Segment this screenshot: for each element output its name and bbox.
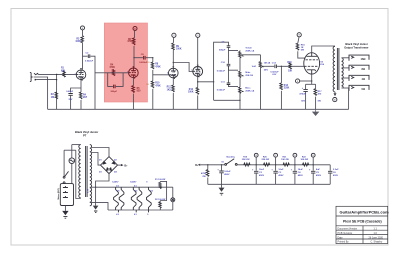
- resistor R14: [280, 66, 282, 83]
- svg-text:450V: 450V: [316, 174, 322, 177]
- svg-text:63V: 63V: [272, 74, 276, 76]
- svg-text:PCB Versions: PCB Versions: [338, 232, 354, 235]
- PT tap stubs: [90, 186, 96, 188]
- wire: [82, 30, 84, 36]
- svg-text:10K-2W: 10K-2W: [301, 159, 309, 161]
- wire: [228, 50, 230, 63]
- cap C2 filter: [255, 165, 257, 171]
- earth ground: [64, 206, 66, 211]
- svg-text:GuitarAmplifierPCBs.com: GuitarAmplifierPCBs.com: [340, 210, 390, 215]
- svg-text:Bass: Bass: [245, 88, 251, 90]
- svg-text:470K: 470K: [127, 40, 133, 43]
- cap C5 filter: [312, 165, 314, 171]
- cap C4 filter: [294, 165, 296, 171]
- svg-text:V1: V1: [80, 73, 82, 75]
- triode V2: [129, 68, 139, 78]
- svg-text:V3A: V3A: [196, 69, 200, 72]
- svg-text:R15: R15: [287, 62, 292, 64]
- svg-text:12AX7: 12AX7: [170, 74, 176, 77]
- wire plate V1: [82, 43, 84, 70]
- wire primary bottom to node A: [334, 92, 336, 94]
- svg-text:R12: R12: [189, 89, 194, 91]
- resistor R11 cathode: [172, 78, 174, 85]
- svg-text:1W: 1W: [146, 84, 149, 86]
- svg-text:450V: 450V: [278, 174, 284, 177]
- svg-text:0Ω: 0Ω: [362, 87, 366, 91]
- svg-text:V2: V2: [132, 71, 134, 73]
- svg-text:22K-2W: 22K-2W: [262, 159, 270, 161]
- svg-text:100-2W: 100-2W: [158, 199, 165, 201]
- resistor R12: [196, 87, 199, 94]
- node C2: [196, 33, 200, 37]
- resistor R10: [152, 75, 154, 81]
- resistor R8: [152, 58, 154, 62]
- svg-text:100K: 100K: [176, 48, 182, 50]
- svg-text:100uF: 100uF: [224, 171, 231, 173]
- wire: [133, 30, 136, 38]
- svg-text:Vol1: Vol1: [252, 66, 257, 68]
- svg-text:10K-2W: 10K-2W: [281, 159, 289, 161]
- switch SW1: [63, 176, 65, 178]
- heater V1: [114, 187, 124, 212]
- series resistor R19: [244, 163, 250, 166]
- svg-text:100K: 100K: [75, 41, 81, 43]
- capacitor C2: [83, 55, 88, 57]
- pot Treble: [239, 50, 241, 51]
- heater V3: [147, 187, 152, 212]
- node C: [172, 33, 176, 37]
- node C chain: [274, 153, 278, 157]
- svg-text:20%: 20%: [264, 70, 268, 72]
- wire direct coupling: [173, 63, 193, 72]
- mains wiring: [64, 149, 76, 151]
- triode V3: [169, 68, 179, 78]
- humdinger R1: [160, 181, 166, 200]
- standby switch: [225, 164, 227, 166]
- bridge to ground: [96, 174, 109, 206]
- resistor R2: [56, 92, 58, 109]
- wire: [228, 66, 230, 83]
- svg-text:25K-1B: 25K-1B: [245, 75, 253, 77]
- wire: [172, 50, 174, 68]
- svg-text:0.68uF: 0.68uF: [66, 91, 74, 93]
- svg-text:250K-1A: 250K-1A: [245, 90, 254, 93]
- svg-text:4 5: 4 5: [134, 213, 137, 216]
- wire sleeve: [36, 79, 57, 81]
- svg-text:6.3V: 6.3V: [88, 188, 90, 193]
- bleeder resistor: [207, 164, 208, 165]
- humdinger R2: [159, 201, 161, 202]
- svg-text:500pF: 500pF: [111, 91, 118, 93]
- cathode network: [311, 74, 313, 84]
- jack 8 ohm: [349, 65, 369, 71]
- wire plate: [197, 37, 199, 66]
- svg-text:10K: 10K: [288, 71, 293, 73]
- svg-text:250K-1A: 250K-1A: [245, 50, 254, 53]
- node B: [297, 33, 301, 37]
- svg-text:2: 2: [167, 72, 168, 74]
- svg-text:7: 7: [191, 70, 192, 72]
- pot Vol1: [260, 55, 262, 62]
- cathode network V1: wire: [80, 80, 82, 93]
- resistor R3: [81, 36, 84, 43]
- wire: [277, 65, 304, 67]
- svg-text:9: 9: [147, 214, 148, 216]
- junction: [152, 57, 153, 58]
- svg-text:12AX7: 12AX7: [78, 75, 84, 78]
- svg-text:4Ω: 4Ω: [362, 77, 366, 81]
- svg-text:470uF: 470uF: [299, 93, 306, 96]
- wire: [262, 65, 274, 67]
- svg-text:7: 7: [75, 74, 76, 76]
- wire tip: [38, 73, 76, 75]
- svg-text:0.022uF: 0.022uF: [217, 70, 226, 72]
- ground rail (top section): [48, 108, 349, 110]
- svg-text:4 5: 4 5: [134, 185, 137, 188]
- wire treble out: [240, 54, 261, 56]
- heater V2: [131, 187, 142, 212]
- main rail: [200, 164, 225, 166]
- svg-text:470K: 470K: [155, 84, 161, 87]
- wire: [229, 85, 239, 87]
- svg-text:Printed By: Printed By: [338, 241, 350, 244]
- secondary coil: [342, 58, 344, 88]
- svg-text:8Ω: 8Ω: [362, 67, 366, 71]
- svg-text:7: 7: [127, 72, 128, 74]
- svg-text:C. Shapley: C. Shapley: [371, 241, 383, 244]
- svg-text:50V: 50V: [301, 100, 305, 102]
- capacitor C9: [227, 46, 231, 48]
- svg-text:Document Version: Document Version: [338, 228, 358, 231]
- ground symbol: [313, 109, 319, 115]
- wire ring: [34, 77, 48, 109]
- capacitor C12: [275, 65, 277, 69]
- jack 16 ohm: [349, 55, 369, 61]
- fuse F1: [69, 158, 75, 164]
- resistor R5 cathode: [132, 78, 134, 86]
- svg-text:100-2W: 100-2W: [158, 179, 165, 181]
- highlight box (cascade stage): [104, 23, 147, 102]
- svg-text:Plexi SE PCB (Cascade): Plexi SE PCB (Cascade): [343, 220, 382, 224]
- svg-text:12AX7: 12AX7: [112, 180, 119, 183]
- resistor R1: [63, 71, 65, 77]
- svg-text:12AX7: 12AX7: [195, 72, 201, 75]
- wire: [133, 46, 135, 68]
- svg-text:68K: 68K: [61, 70, 66, 72]
- svg-text:16uF: 16uF: [278, 169, 284, 171]
- wire input column: [214, 42, 229, 100]
- node A: [333, 98, 337, 102]
- svg-text:630V: 630V: [333, 175, 339, 177]
- svg-text:450V: 450V: [224, 173, 230, 176]
- svg-text:V3B: V3B: [171, 72, 175, 74]
- capacitor C parallel: [108, 73, 113, 87]
- ground B+ chain: [221, 184, 223, 187]
- triode V3b cathode follower: [193, 67, 203, 77]
- svg-text:16Ω: 16Ω: [361, 57, 366, 61]
- svg-text:Black Vinyl Junior: Black Vinyl Junior: [75, 130, 98, 134]
- core: [337, 48, 339, 90]
- resistor R5a: [79, 92, 82, 99]
- svg-text:4 5: 4 5: [116, 185, 119, 188]
- svg-text:63V: 63V: [146, 62, 150, 64]
- wire: [146, 57, 153, 59]
- speaker taps: [342, 57, 350, 59]
- svg-text:0.022uF: 0.022uF: [270, 72, 279, 74]
- wire: [132, 94, 134, 110]
- node B chain: [254, 153, 258, 157]
- wire screen: [298, 51, 306, 58]
- svg-text:Date: Date: [338, 236, 344, 239]
- capacitor C10: [227, 64, 231, 66]
- svg-text:Mains (IEC): Mains (IEC): [58, 188, 60, 200]
- svg-text:100K: 100K: [188, 92, 194, 94]
- resistor R15: [289, 63, 291, 69]
- primary coil: [333, 46, 335, 92]
- resistor R4 grid: [112, 69, 114, 75]
- node E chain: [311, 153, 315, 157]
- svg-text:0.022uF: 0.022uF: [217, 89, 226, 91]
- svg-text:Output Transformer: Output Transformer: [344, 45, 368, 49]
- svg-text:R10: R10: [155, 83, 160, 85]
- resistor R17: [315, 84, 317, 88]
- svg-text:35V: 35V: [68, 99, 72, 101]
- node F: [296, 79, 300, 83]
- jack 0 ohm: [349, 85, 369, 91]
- svg-text:1M: 1M: [51, 97, 54, 99]
- svg-text:3.3uF: 3.3uF: [333, 169, 339, 171]
- resistor R6: [132, 38, 135, 45]
- cap C1 filter: [221, 164, 222, 165]
- wire: [91, 56, 96, 109]
- wire to grid network: [95, 72, 104, 74]
- bridge wiring: [92, 148, 109, 157]
- wire grid leak: [56, 74, 58, 92]
- capacitor C1 bypass: [68, 94, 72, 96]
- svg-text:470K: 470K: [109, 66, 115, 69]
- svg-text:2K7: 2K7: [83, 97, 88, 99]
- svg-text:500pF: 500pF: [219, 50, 226, 52]
- svg-text:4 5: 4 5: [116, 213, 119, 216]
- wire bottom return: [214, 99, 240, 101]
- wire 0 ohm to ground rail: [348, 88, 350, 109]
- wire: [104, 72, 128, 74]
- core PT: [86, 146, 88, 197]
- svg-text:PT: PT: [83, 134, 87, 138]
- node D: [133, 27, 137, 31]
- svg-text:R14: R14: [284, 84, 289, 87]
- cap C3 filter: [275, 165, 277, 171]
- svg-text:12AX7: 12AX7: [130, 180, 137, 183]
- svg-text:16uF: 16uF: [298, 169, 304, 171]
- capacitor C13: [306, 83, 316, 85]
- jack 4 ohm: [349, 75, 369, 81]
- cap C6 last: [329, 165, 331, 171]
- series resistor R22: [303, 163, 309, 166]
- cathode follower output: [197, 76, 199, 87]
- resistor R16 screen: [298, 37, 299, 43]
- svg-text:26 June 2020: 26 June 2020: [369, 236, 384, 239]
- svg-text:470K: 470K: [201, 172, 207, 175]
- node D chain: [293, 153, 297, 157]
- svg-text:8uF: 8uF: [316, 169, 321, 171]
- svg-text:1M-1A: 1M-1A: [264, 61, 271, 64]
- svg-text:0.022uF: 0.022uF: [85, 61, 94, 63]
- bottom rail: [208, 183, 330, 185]
- capacitor C11: [227, 83, 231, 85]
- resistor R9: [172, 37, 174, 43]
- node E: [81, 26, 85, 30]
- wire: [229, 47, 239, 50]
- pilot lamp: [172, 187, 174, 198]
- svg-text:470K: 470K: [155, 65, 161, 68]
- pot Mids: [239, 59, 241, 71]
- svg-text:450V: 450V: [259, 174, 265, 177]
- secondary coil PT: [90, 145, 92, 206]
- wire plate: [312, 46, 335, 53]
- series resistor R21: [283, 163, 289, 166]
- svg-text:R11: R11: [167, 87, 172, 89]
- wire: [153, 70, 169, 75]
- IEC inlet: [60, 184, 73, 206]
- wire: [229, 66, 239, 70]
- capacitor C8: [134, 57, 143, 59]
- triode V1: [76, 70, 86, 80]
- svg-text:Standby: Standby: [226, 156, 235, 159]
- svg-text:Treble: Treble: [245, 47, 252, 49]
- primary coil PT: [79, 145, 81, 198]
- svg-text:12AX7: 12AX7: [131, 73, 137, 76]
- svg-text:220K: 220K: [284, 88, 290, 90]
- svg-text:1K5: 1K5: [167, 89, 172, 91]
- pentode V4: [304, 53, 320, 74]
- svg-text:22K-2W: 22K-2W: [242, 159, 250, 161]
- pot Bass: [239, 86, 241, 87]
- input jack J1: [30, 73, 38, 82]
- svg-text:450V: 450V: [298, 174, 304, 177]
- series resistor R20: [264, 163, 270, 166]
- svg-text:Mids: Mids: [245, 72, 251, 74]
- svg-text:16uF: 16uF: [259, 169, 265, 171]
